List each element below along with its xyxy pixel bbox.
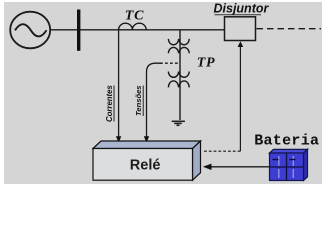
svg-text:Bateria: Bateria <box>254 133 319 150</box>
svg-text:Tensões: Tensões <box>134 85 143 116</box>
wire bus <box>50 29 225 31</box>
current transformer TC <box>119 23 147 30</box>
trip wire from relay to breaker <box>239 46 241 151</box>
battery right face <box>304 149 308 180</box>
svg-text:TP: TP <box>197 56 215 71</box>
generator G1 (AC source) <box>10 12 50 49</box>
wire dashed feeder <box>257 28 322 30</box>
relay box top face <box>93 141 201 149</box>
arrowhead into breaker <box>238 41 244 47</box>
svg-text:TC: TC <box>125 9 145 24</box>
svg-text:Correntes: Correntes <box>105 85 114 122</box>
svg-text:Disjuntor: Disjuntor <box>214 2 270 16</box>
potential transformer TP <box>168 30 189 120</box>
battery cell markings <box>270 153 304 181</box>
battery front face <box>270 153 304 181</box>
busbar <box>77 10 80 51</box>
ground <box>172 121 185 125</box>
svg-text:Relé: Relé <box>130 158 161 174</box>
arrowhead into relay (battery) <box>203 164 212 170</box>
arrowhead into relay (correntes) <box>116 136 121 143</box>
circuit breaker (Disjuntor) box <box>225 17 256 41</box>
wire correntes (CT secondary) <box>118 30 120 137</box>
wire battery to relay <box>211 166 270 168</box>
wire tensões (PT secondary) <box>147 63 163 136</box>
relay box right face <box>193 141 201 180</box>
arrowhead into relay (tensões) <box>144 136 149 143</box>
relay box front face <box>93 149 193 181</box>
battery top face <box>270 149 308 153</box>
wire dashed trip link to relay <box>203 150 241 152</box>
background panel <box>0 0 325 189</box>
